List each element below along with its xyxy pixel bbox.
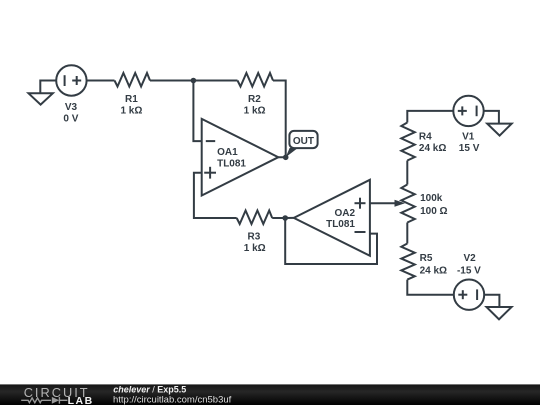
resistor R3 bbox=[237, 211, 272, 225]
ground (V1) bbox=[487, 124, 512, 136]
svg-text:R5: R5 bbox=[420, 253, 433, 264]
footer bar bbox=[0, 384, 540, 405]
svg-text:V1: V1 bbox=[462, 132, 475, 143]
svg-text:24 kΩ: 24 kΩ bbox=[420, 266, 447, 277]
svg-text:R4: R4 bbox=[419, 132, 432, 143]
svg-text:TL081: TL081 bbox=[326, 219, 355, 230]
flag OUT box bbox=[289, 131, 317, 148]
wire V3 to ground bbox=[40, 81, 56, 94]
svg-text:TL081: TL081 bbox=[217, 158, 246, 169]
wire OA1 output stub bbox=[278, 156, 285, 158]
node OUT junction bbox=[283, 155, 289, 161]
wire R2 to output node bbox=[273, 81, 286, 158]
wire node A to OA1 inverting input bbox=[193, 81, 201, 142]
resistor R1 bbox=[115, 73, 150, 87]
svg-text:1 kΩ: 1 kΩ bbox=[120, 106, 142, 117]
svg-text:R1: R1 bbox=[125, 94, 138, 105]
wire V1 to ground bbox=[484, 111, 499, 124]
resistor R2 bbox=[238, 73, 273, 87]
resistor R4 bbox=[401, 123, 415, 161]
label V2 value bbox=[457, 253, 481, 276]
svg-text:R2: R2 bbox=[248, 94, 261, 105]
label R3 value bbox=[244, 232, 266, 254]
wire R4 to potentiometer bbox=[406, 161, 408, 185]
svg-text:100 Ω: 100 Ω bbox=[420, 206, 447, 217]
resistor R5 bbox=[401, 244, 415, 280]
svg-text:http://circuitlab.com/cn5b3uf: http://circuitlab.com/cn5b3uf bbox=[113, 395, 232, 405]
svg-text:15 V: 15 V bbox=[459, 143, 480, 154]
label OA2 value bbox=[326, 208, 355, 230]
wire OA1 noninverting input to R3 bbox=[194, 173, 237, 218]
svg-text:OA1: OA1 bbox=[217, 147, 238, 158]
label R1 value bbox=[120, 94, 142, 117]
label potentiometer value bbox=[420, 193, 447, 217]
svg-text:1 kΩ: 1 kΩ bbox=[244, 243, 266, 254]
wire R5 to V2 bbox=[407, 280, 454, 295]
node OUT flag pointer bbox=[286, 148, 298, 157]
label R4 value bbox=[419, 132, 446, 154]
wire R1 to node A bbox=[150, 80, 193, 82]
svg-text:LAB: LAB bbox=[68, 395, 94, 405]
op-amp OA2 bbox=[294, 180, 370, 256]
label R2 value bbox=[244, 94, 266, 117]
voltage source V3 bbox=[56, 65, 86, 95]
svg-text:V3: V3 bbox=[65, 102, 78, 113]
svg-text:100k: 100k bbox=[420, 193, 443, 204]
svg-text:24 kΩ: 24 kΩ bbox=[419, 143, 446, 154]
svg-text:chelever / Exp5.5: chelever / Exp5.5 bbox=[113, 384, 186, 394]
wire OA2 feedback: - input to node B bbox=[285, 218, 377, 264]
ground (V2) bbox=[487, 307, 512, 319]
wire node B to OA2 output bbox=[285, 217, 294, 219]
wire node A to R2 bbox=[193, 80, 237, 82]
node B junction bbox=[282, 215, 288, 221]
voltage source V2 bbox=[454, 280, 484, 310]
label OA1 value bbox=[217, 147, 246, 169]
op-amp OA1 bbox=[202, 119, 279, 196]
svg-text:OA2: OA2 bbox=[334, 208, 355, 219]
wire OA2 + input to potentiometer wiper bbox=[370, 202, 396, 204]
wire potentiometer to R5 bbox=[406, 223, 408, 244]
svg-text:R3: R3 bbox=[248, 232, 261, 243]
node A junction bbox=[191, 78, 197, 84]
potentiometer 100k bbox=[401, 185, 415, 223]
wire V1 to R4 bbox=[407, 111, 453, 123]
wiper arrow bbox=[395, 200, 406, 207]
wire V2 to ground bbox=[484, 295, 499, 307]
label V1 value bbox=[459, 132, 480, 154]
wire R3 to node B bbox=[272, 217, 285, 219]
logo squiggle resistor and diode bbox=[21, 397, 67, 404]
svg-text:0 V: 0 V bbox=[63, 113, 78, 124]
svg-text:V2: V2 bbox=[463, 253, 476, 264]
label V3 value bbox=[63, 102, 78, 125]
ground (V3) bbox=[29, 93, 53, 104]
svg-text:1 kΩ: 1 kΩ bbox=[244, 106, 266, 117]
svg-text:-15 V: -15 V bbox=[457, 266, 481, 277]
voltage source V1 bbox=[453, 96, 483, 126]
svg-text:OUT: OUT bbox=[293, 136, 314, 147]
wire V3 to R1 bbox=[87, 80, 115, 82]
label R5 value bbox=[420, 253, 447, 276]
